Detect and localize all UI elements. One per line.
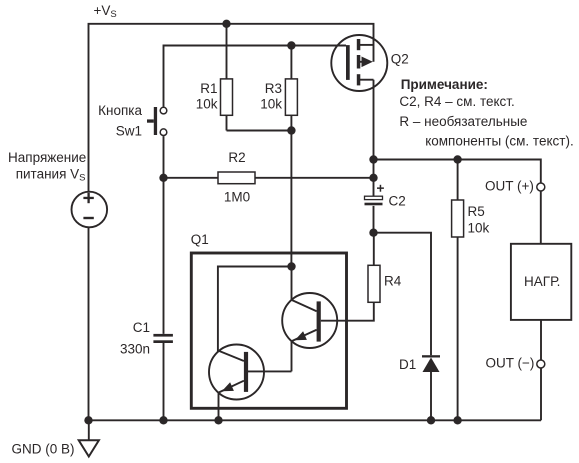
svg-text:C2, R4 – см. текст.: C2, R4 – см. текст. [399,94,514,109]
svg-text:R2: R2 [228,150,245,165]
svg-text:OUT (+): OUT (+) [485,179,534,194]
svg-text:R4: R4 [384,274,402,289]
svg-text:R – необязательные: R – необязательные [399,114,527,129]
svg-text:1M0: 1M0 [224,189,250,204]
svg-text:Примечание:: Примечание: [401,77,488,92]
svg-text:C1: C1 [133,320,150,335]
svg-text:R3: R3 [265,81,282,96]
svg-text:330n: 330n [120,341,150,356]
svg-text:НАГР.: НАГР. [524,274,560,289]
svg-text:GND (0 В): GND (0 В) [11,441,74,456]
svg-text:Q1: Q1 [191,232,209,247]
svg-text:Sw1: Sw1 [116,124,142,139]
svg-text:компоненты (см. текст).: компоненты (см. текст). [425,133,574,148]
svg-text:Кнопка: Кнопка [98,103,142,118]
svg-text:OUT (−): OUT (−) [486,356,535,371]
svg-text:C2: C2 [389,194,406,209]
svg-text:10k: 10k [260,97,282,112]
svg-text:+VS: +VS [94,3,117,20]
svg-text:D1: D1 [399,357,416,372]
svg-text:R5: R5 [468,204,485,219]
svg-text:10k: 10k [468,221,490,236]
svg-text:Q2: Q2 [391,51,409,66]
svg-text:10k: 10k [196,97,218,112]
svg-text:питания VS: питания VS [16,167,86,184]
svg-text:Напряжение: Напряжение [8,150,86,165]
svg-text:R1: R1 [200,81,217,96]
